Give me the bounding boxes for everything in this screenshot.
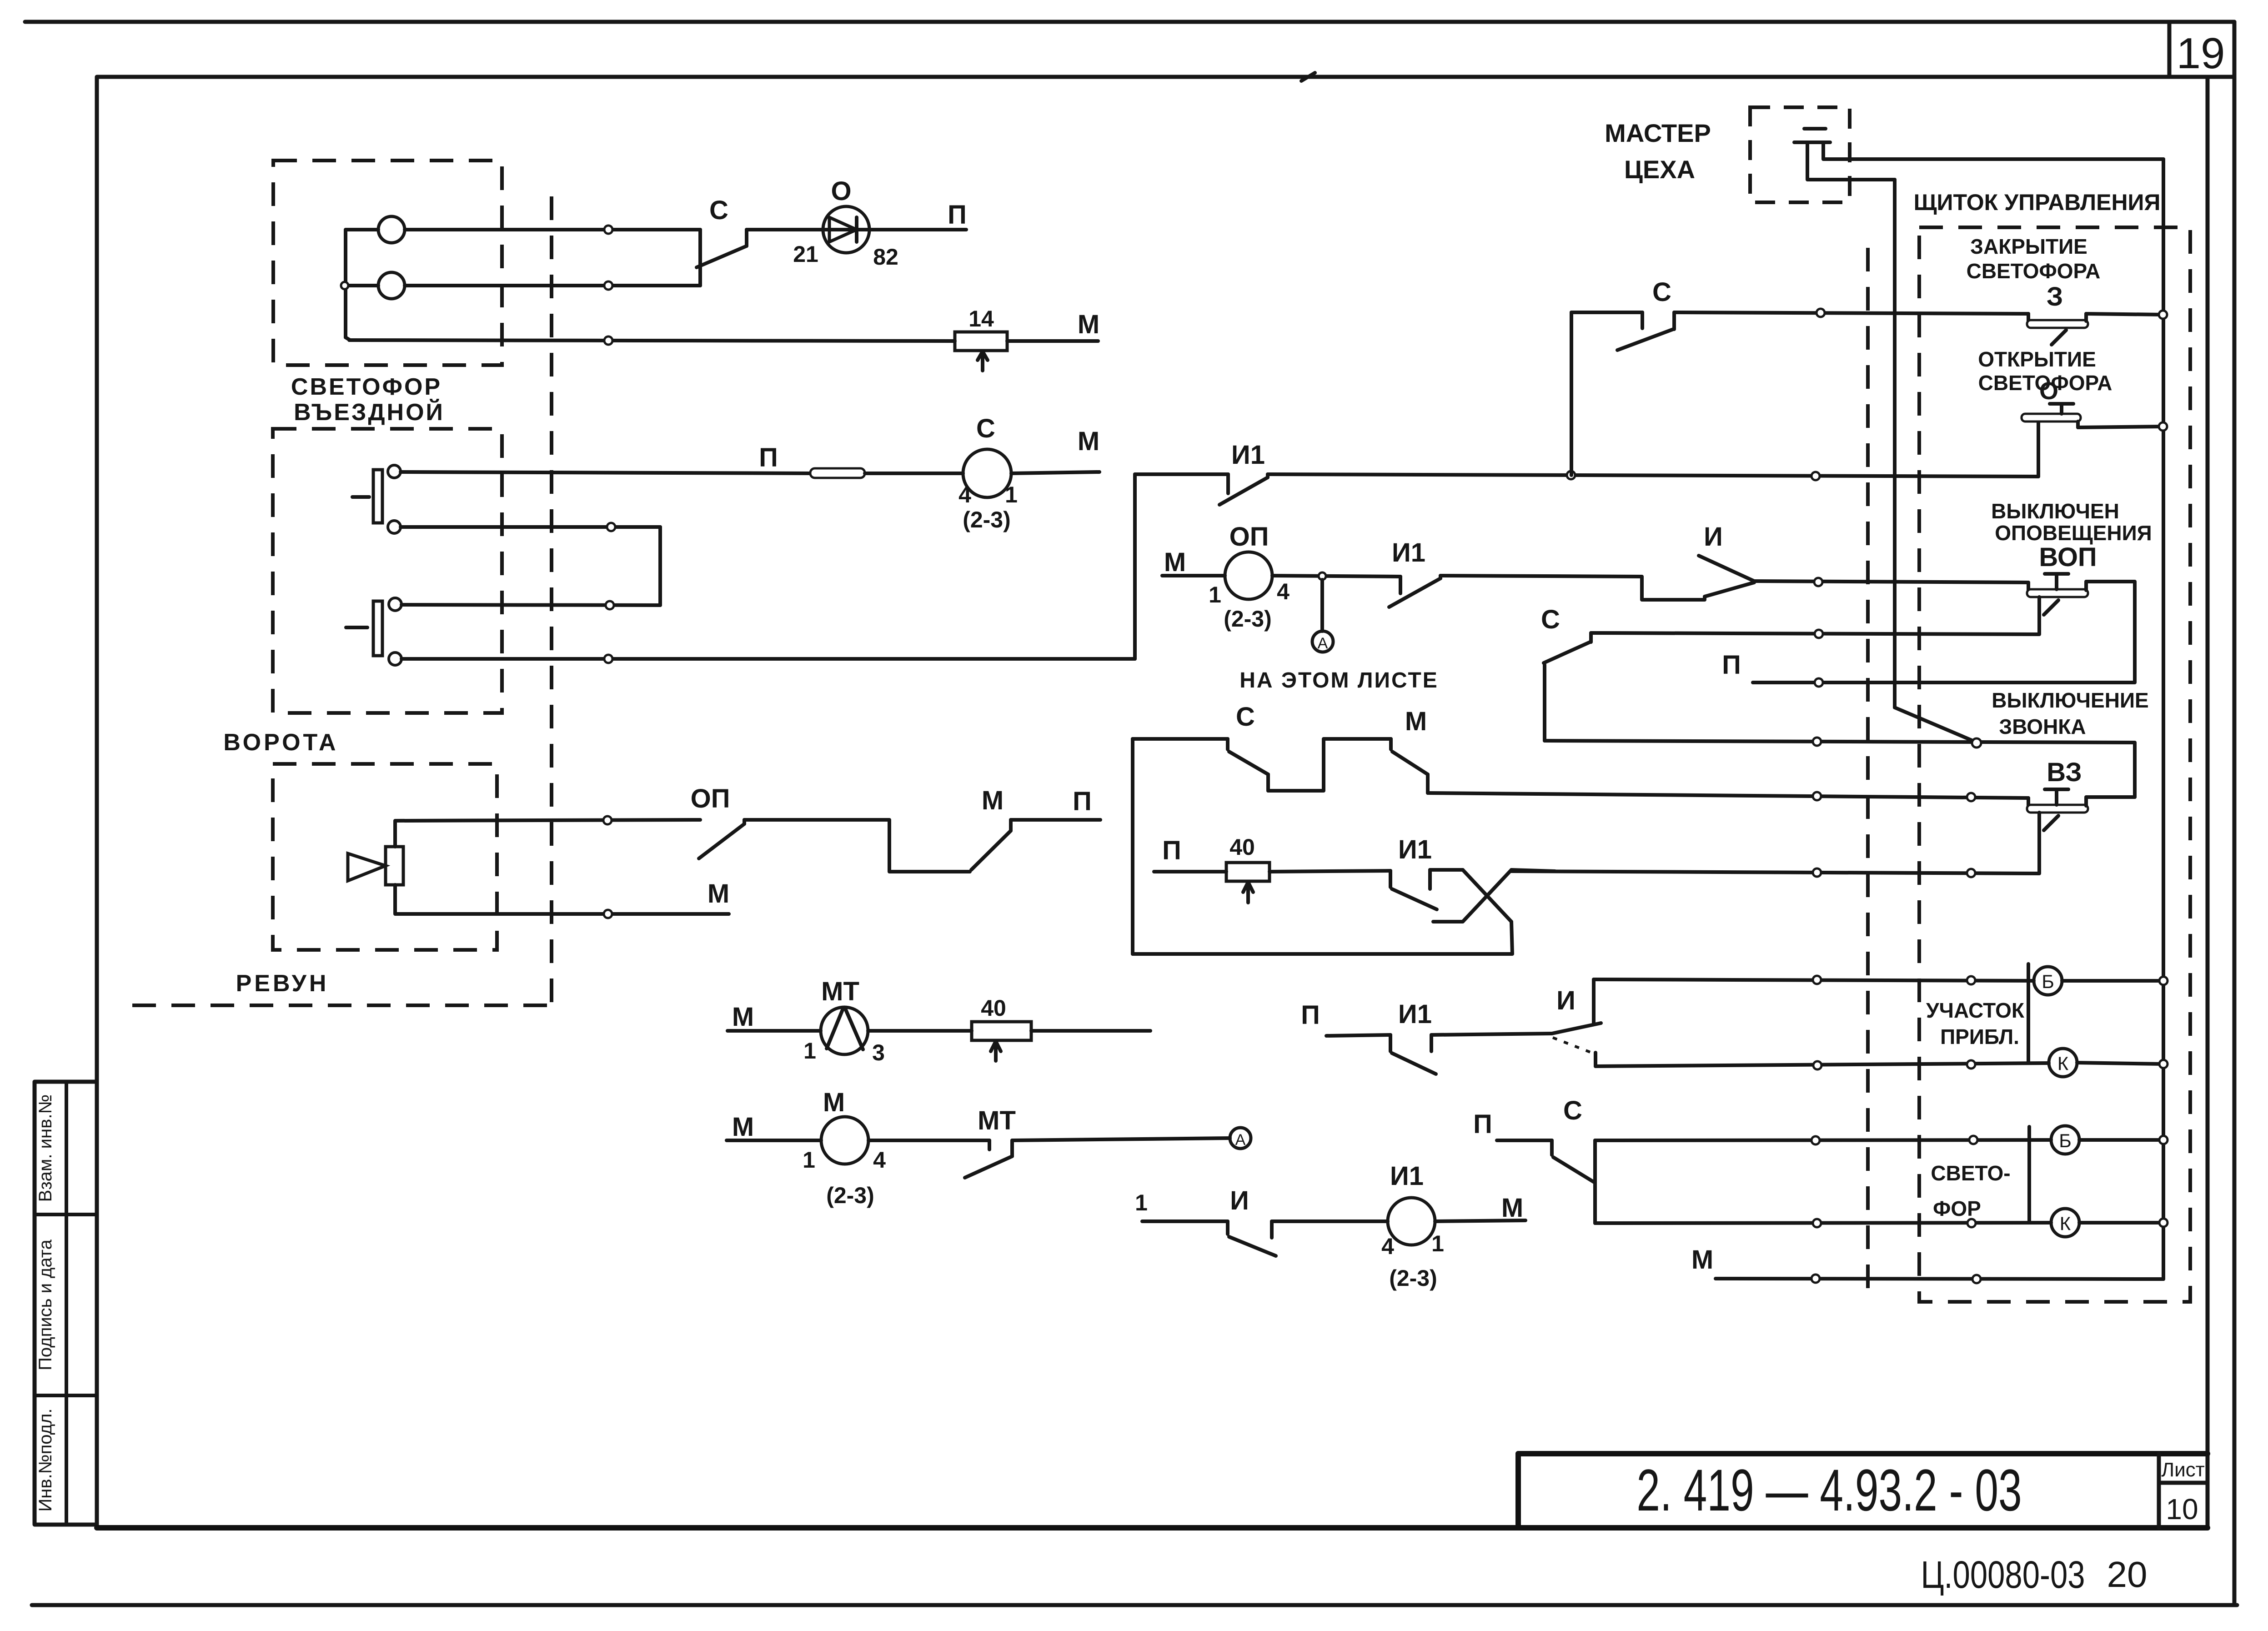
node А circled (М row): [1230, 1128, 1251, 1149]
svg-text:С: С: [1236, 702, 1255, 732]
dashed cable boundary right vertical: [1866, 248, 1870, 1289]
svg-text:40: 40: [1229, 834, 1255, 860]
contact И changeover (ВОП row): [1705, 582, 1754, 597]
push button З (закрытие): [2027, 314, 2030, 321]
wire link back to SQ2 top: [401, 605, 660, 605]
wire К to bus (светофор): [2079, 1221, 2163, 1225]
left stamp column: [35, 1082, 97, 1525]
svg-text:С: С: [1563, 1096, 1582, 1125]
node А (circled): [1312, 631, 1333, 652]
svg-text:П: П: [1162, 836, 1181, 865]
wire to П end: [1011, 818, 1100, 822]
svg-text:И1: И1: [1392, 538, 1425, 567]
wire to step: [744, 820, 970, 872]
wire ВОП right to П row: [1753, 582, 2135, 683]
wire lamp2 left stub: [346, 284, 378, 287]
svg-text:И1: И1: [1398, 835, 1432, 864]
wire И1 to step: [1440, 576, 1705, 600]
svg-text:10: 10: [2166, 1493, 2198, 1526]
lamp HL1 (traffic light lamp top): [378, 216, 405, 243]
wire right bus vertical: [2162, 159, 2165, 1279]
wire З to right bus: [2086, 314, 2163, 315]
svg-text:И1: И1: [1398, 999, 1432, 1029]
contact И (И1 coil row): [1226, 1221, 1229, 1234]
svg-text:21: 21: [793, 241, 818, 267]
svg-text:М: М: [1501, 1193, 1523, 1223]
wire О to right bus: [2078, 427, 2163, 427]
gate limit switch SQ1: [373, 470, 382, 523]
arrow of resistor 14: [981, 352, 984, 371]
wire lamp left link: [346, 230, 378, 337]
svg-text:ВЫКЛЮЧЕНИЕ: ВЫКЛЮЧЕНИЕ: [1992, 688, 2148, 712]
svg-text:С: С: [976, 414, 995, 443]
svg-text:МАСТЕР: МАСТЕР: [1605, 119, 1711, 147]
svg-text:М: М: [1164, 547, 1186, 577]
node terminal row2: [604, 281, 612, 290]
svg-text:М: М: [982, 786, 1004, 815]
wire SQ2 bottom long row: [401, 657, 1135, 661]
svg-text:ЗВОНКА: ЗВОНКА: [1999, 715, 2086, 738]
dashed box Светофор въездной: [273, 161, 502, 365]
svg-text:14: 14: [968, 306, 994, 331]
wire звонок row (1629): [1545, 741, 2135, 797]
svg-text:М: М: [732, 1002, 754, 1032]
contact М (bell row): [971, 831, 1011, 870]
dashed box Ворота: [273, 429, 502, 713]
lamp HL2 (traffic light lamp bottom): [378, 272, 405, 299]
svg-text:О: О: [831, 176, 851, 206]
wire master drop to blade: [1893, 180, 1897, 708]
svg-text:И1: И1: [1231, 440, 1265, 470]
page outer top rule: [25, 20, 2234, 24]
wire lamp right link: [698, 230, 702, 286]
contact ОП: [699, 824, 744, 858]
svg-text:М: М: [823, 1088, 845, 1117]
svg-text:М: М: [732, 1112, 754, 1142]
wire to diode: [747, 228, 966, 231]
svg-text:СВЕТОФОРА: СВЕТОФОРА: [1978, 371, 2112, 395]
svg-text:1: 1: [1135, 1190, 1148, 1215]
svg-text:Ц.00080-03: Ц.00080-03: [1921, 1554, 2085, 1596]
svg-text:И: И: [1704, 522, 1723, 552]
svg-text:4: 4: [873, 1147, 886, 1173]
wire И to ВОП button: [1754, 581, 2028, 582]
push button О (открытие): [2037, 421, 2040, 477]
svg-text:Б: Б: [2059, 1130, 2072, 1151]
svg-text:А: А: [1318, 635, 1328, 652]
svg-text:(2-3): (2-3): [963, 507, 1011, 532]
contact МТ: [988, 1140, 991, 1149]
dashed box Ревун: [273, 764, 497, 950]
wire П row (approach): [1326, 1035, 1390, 1036]
wire ВЗ row: [1428, 793, 2028, 798]
wire down to А: [1320, 580, 1324, 631]
wire И1 row continue: [1268, 474, 2038, 477]
svg-text:2. 419 — 4.93.2 - 03: 2. 419 — 4.93.2 - 03: [1636, 1457, 2022, 1523]
svg-text:1: 1: [1005, 482, 1018, 507]
wire И1 coil to М: [1435, 1220, 1525, 1221]
wire master left stem: [1807, 142, 1895, 180]
contact И1 (ВОП row): [1399, 577, 1402, 593]
node Б circled (светофор): [2051, 1126, 2079, 1154]
svg-text:4: 4: [958, 482, 971, 507]
wire SQ1 bottom to link: [401, 525, 660, 529]
svg-text:ВОРОТА: ВОРОТА: [223, 729, 338, 756]
svg-text:ФОР: ФОР: [1933, 1197, 1981, 1220]
svg-text:МТ: МТ: [821, 977, 859, 1006]
svg-text:40: 40: [981, 995, 1006, 1021]
node К circled (светофор): [2051, 1209, 2079, 1237]
node К circled (approach): [2049, 1049, 2077, 1077]
svg-text:З: З: [2047, 282, 2063, 311]
svg-text:П: П: [1473, 1109, 1492, 1139]
svg-text:3: 3: [872, 1040, 885, 1065]
wire 40 to И1: [1269, 871, 1390, 872]
contact И1 (gate row): [1226, 474, 1230, 493]
sheet number box 19: [2168, 22, 2172, 77]
node Б circled (approach): [2034, 967, 2062, 995]
page outer bottom rule: [32, 1603, 2237, 1607]
svg-text:А: А: [1235, 1131, 1246, 1149]
svg-text:ОП: ОП: [691, 784, 730, 813]
dashed cable boundary bottom horizontal: [132, 1004, 552, 1007]
push button ВЗ: [2027, 798, 2030, 806]
wire С coil to М end: [1011, 472, 1099, 473]
gate limit switch SQ2: [373, 601, 382, 656]
wire Б row (approach): [1594, 979, 2034, 981]
svg-text:4: 4: [1381, 1234, 1394, 1259]
svg-text:82: 82: [873, 244, 898, 270]
wire riser to И1 row: [1133, 474, 1137, 659]
svg-text:МТ: МТ: [978, 1106, 1016, 1135]
svg-text:(2-3): (2-3): [826, 1183, 874, 1208]
wire Б to bus: [2062, 979, 2163, 983]
resistor 40 (П row): [1226, 863, 1269, 881]
wire ВЗ right: [2086, 795, 2135, 799]
wire Б to bus (светофор): [2079, 1138, 2163, 1142]
svg-text:20: 20: [2107, 1554, 2148, 1595]
horn BA (Ревун): [386, 847, 403, 885]
wire bottom lamp common row: [346, 337, 350, 340]
node junction: [1567, 471, 1575, 479]
svg-text:СВЕТО-: СВЕТО-: [1931, 1161, 2010, 1185]
svg-text:М: М: [1691, 1245, 1713, 1275]
wire zigzag middle: [1268, 739, 1391, 791]
wire Б row (светофор): [1595, 1140, 2051, 1140]
wire ОП coil to И1 contact: [1272, 576, 1400, 577]
svg-text:С: С: [1652, 277, 1671, 307]
wire lamp2 row: [405, 284, 700, 287]
wire МТ contact to А: [1012, 1138, 1230, 1140]
svg-text:М: М: [1405, 707, 1427, 736]
svg-text:П: П: [1301, 1000, 1320, 1030]
wire lamp1 row: [405, 228, 700, 231]
wire И1 to И changeover: [1431, 1034, 1552, 1035]
wire X crossing: [1430, 868, 1463, 872]
svg-text:(2-3): (2-3): [1224, 606, 1272, 632]
svg-text:Лист: Лист: [2161, 1459, 2205, 1481]
svg-text:Взам. инв.№: Взам. инв.№: [35, 1094, 55, 1202]
contact С (ВОП feed): [1544, 642, 1590, 663]
wire М coil to МТ contact: [868, 1139, 989, 1142]
svg-text:УЧАСТОК: УЧАСТОК: [1926, 999, 2025, 1022]
svg-text:Б: Б: [2042, 971, 2054, 992]
wire И contact to И1 coil: [1272, 1219, 1388, 1223]
wire after 14: [1007, 339, 1098, 343]
svg-text:К: К: [2060, 1213, 2071, 1234]
wire С riser светофор: [1593, 1140, 1597, 1223]
wire М to ОП coil: [1162, 574, 1225, 577]
svg-text:СВЕТОФОР: СВЕТОФОР: [291, 374, 442, 400]
wire master right stem: [1823, 142, 2163, 159]
contact И1 (X row): [1389, 871, 1392, 887]
svg-text:ВОП: ВОП: [2039, 542, 2097, 572]
wire МТ coil to 40: [868, 1029, 972, 1033]
svg-text:И1: И1: [1390, 1161, 1424, 1191]
svg-text:НА ЭТОМ ЛИСТЕ: НА ЭТОМ ЛИСТЕ: [1239, 668, 1439, 693]
svg-text:ОПОВЕЩЕНИЯ: ОПОВЕЩЕНИЯ: [1995, 521, 2152, 545]
dashed cable boundary left vertical: [550, 196, 553, 1005]
contact И1 (approach row): [1389, 1035, 1392, 1051]
wire horn top: [395, 820, 700, 847]
svg-text:П: П: [948, 200, 967, 230]
svg-text:ОТКРЫТИЕ: ОТКРЫТИЕ: [1978, 347, 2096, 371]
svg-text:1: 1: [803, 1038, 816, 1064]
wire С to З button: [1674, 312, 2028, 314]
wire К row (approach): [1596, 1063, 2049, 1066]
svg-text:ОП: ОП: [1229, 522, 1269, 552]
time relay coil МТ: [821, 1007, 868, 1054]
wire П contact to С coil: [865, 472, 963, 475]
relay coil М: [821, 1117, 868, 1164]
wire С contact down: [1543, 665, 1546, 741]
zigzag riser left: [1131, 739, 1134, 954]
diode VD (lamp О): [823, 206, 869, 253]
contact С (З row): [1641, 312, 1644, 328]
relay coil ОП: [1225, 552, 1272, 599]
svg-text:СВЕТОФОРА: СВЕТОФОРА: [1967, 259, 2101, 283]
wire И1 row: [1135, 472, 1228, 476]
wire zigzag top: [1133, 737, 1228, 741]
svg-text:ЩИТОК УПРАВЛЕНИЯ: ЩИТОК УПРАВЛЕНИЯ: [1914, 190, 2161, 215]
node lamp link: [341, 282, 348, 289]
svg-text:П: П: [1722, 650, 1741, 680]
title block: [1518, 1451, 2208, 1456]
svg-text:К: К: [2057, 1053, 2069, 1074]
svg-text:Подпись и дата: Подпись и дата: [35, 1239, 55, 1370]
svg-text:1: 1: [1431, 1231, 1444, 1256]
wire ВЗ bottom stem to row 1921: [1511, 813, 2039, 873]
svg-text:ВЪЕЗДНОЙ: ВЪЕЗДНОЙ: [294, 399, 445, 426]
svg-text:1: 1: [1209, 582, 1221, 607]
svg-text:ЗАКРЫТИЕ: ЗАКРЫТИЕ: [1970, 235, 2087, 258]
svg-text:Инв.№подл.: Инв.№подл.: [35, 1409, 55, 1512]
node terminal common row: [604, 336, 612, 345]
svg-text:ВЗ: ВЗ: [2047, 758, 2082, 787]
relay coil И1: [1388, 1198, 1435, 1245]
svg-text:ЦЕХА: ЦЕХА: [1624, 155, 1695, 184]
svg-text:С: С: [1541, 605, 1560, 634]
svg-text:С: С: [709, 196, 728, 225]
wire З row from С contact: [1570, 312, 1573, 475]
wire horn bottom: [395, 885, 729, 914]
svg-text:П: П: [759, 443, 778, 472]
dashed box Мастер цеха: [1750, 107, 1850, 202]
svg-text:И: И: [1556, 986, 1576, 1015]
wire link down: [658, 527, 662, 605]
wire ВОП bottom stem: [1591, 597, 2039, 634]
arrow of resistor 40: [1246, 883, 1250, 903]
page outer right rule: [2233, 22, 2237, 1605]
resistor 14: [955, 332, 1007, 351]
svg-text:4: 4: [1277, 579, 1290, 604]
switch blade from Мастер цеха: [1895, 708, 1974, 741]
svg-text:1: 1: [803, 1147, 815, 1173]
node terminal row1: [604, 226, 612, 234]
contact И changeover (approach): [1552, 1023, 1601, 1034]
wire X upper to row 1921: [1511, 870, 1555, 871]
svg-text:М: М: [707, 879, 729, 908]
svg-text:П: П: [1073, 787, 1092, 816]
contact П (bridge): [810, 468, 865, 478]
dashed box Щиток управления: [1919, 227, 2190, 1302]
wire X to bus: [1133, 922, 1512, 954]
node terminal: [1811, 472, 1820, 480]
push button Мастер цеха: [1804, 127, 1826, 130]
svg-text:ПРИБЛ.: ПРИБЛ.: [1940, 1025, 2019, 1049]
contact С (lamp row): [697, 246, 747, 267]
contact М (zigzag): [1389, 739, 1393, 749]
wire divider approach group: [2027, 964, 2030, 1063]
node junction А tap: [1319, 572, 1326, 580]
svg-text:М: М: [1078, 310, 1099, 339]
svg-text:ВЫКЛЮЧЕН: ВЫКЛЮЧЕН: [1991, 499, 2119, 523]
wire К row (светофор): [1595, 1223, 2051, 1223]
push button ВОП: [2027, 582, 2030, 590]
svg-text:М: М: [1078, 427, 1099, 456]
svg-text:И: И: [1230, 1186, 1249, 1215]
wire П to 40: [1154, 870, 1226, 873]
wire after 40: [1031, 1029, 1150, 1033]
arrow of resistor 40 (МТ row): [994, 1042, 998, 1061]
svg-text:(2-3): (2-3): [1389, 1265, 1437, 1291]
relay coil С: [963, 449, 1011, 497]
tick on frame top: [1301, 73, 1315, 81]
wire SQ1 top row to П contact: [401, 472, 812, 473]
contact С (светофор row): [1550, 1140, 1554, 1155]
wire divider светофор group: [2027, 1127, 2031, 1223]
resistor 40 (МТ row): [972, 1022, 1031, 1040]
svg-text:РЕВУН: РЕВУН: [236, 970, 329, 997]
wire К to bus: [2077, 1063, 2163, 1064]
svg-text:19: 19: [2177, 29, 2225, 78]
contact С (zigzag): [1226, 739, 1229, 749]
